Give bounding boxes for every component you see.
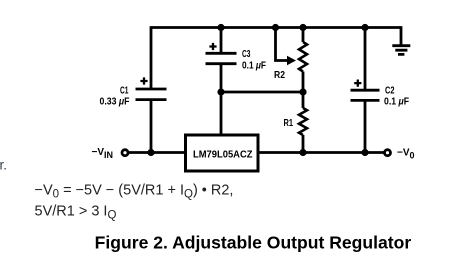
svg-text:0.33 μF: 0.33 μF: [100, 97, 130, 108]
svg-text:R2: R2: [274, 70, 285, 81]
svg-text:C2: C2: [385, 86, 395, 97]
svg-text:−V0: −V0: [397, 148, 415, 161]
svg-text:5V/R1 > 3 IQ: 5V/R1 > 3 IQ: [35, 204, 117, 222]
svg-text:Figure 2. Adjustable Output Re: Figure 2. Adjustable Output Regulator: [95, 233, 412, 253]
svg-text:−VIN: −VIN: [92, 147, 114, 160]
svg-text:r.: r.: [0, 157, 7, 172]
svg-text:0.1 μF: 0.1 μF: [384, 97, 409, 108]
svg-text:0.1 μF: 0.1 μF: [242, 61, 266, 72]
svg-text:R1: R1: [284, 118, 294, 129]
svg-text:C3: C3: [242, 49, 251, 60]
svg-text:LM79L05ACZ: LM79L05ACZ: [193, 150, 253, 161]
svg-text:−V0 = −5V − (5V/R1 + IQ) • R2,: −V0 = −5V − (5V/R1 + IQ) • R2,: [35, 183, 234, 201]
svg-text:C1: C1: [120, 86, 129, 97]
